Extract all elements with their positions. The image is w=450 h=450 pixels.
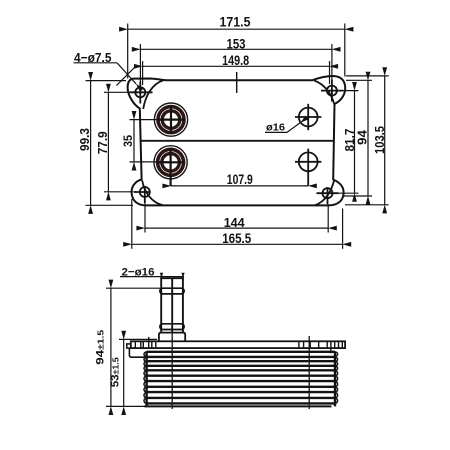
dimension 81.7 xyxy=(332,91,359,194)
ear inner arc bottom-right xyxy=(315,180,334,205)
svg-text:77.9: 77.9 xyxy=(95,131,110,154)
svg-text:107.9: 107.9 xyxy=(227,172,253,187)
dimension 107.9 xyxy=(171,172,308,187)
body horizontal centre line xyxy=(141,140,334,142)
flange left stub xyxy=(127,344,131,348)
svg-text:94±1.5: 94±1.5 xyxy=(95,329,107,364)
dimension 165.5 xyxy=(132,199,343,249)
svg-text:94: 94 xyxy=(354,129,369,145)
hole ø16 upper right xyxy=(295,104,321,130)
svg-text:149.8: 149.8 xyxy=(222,53,249,68)
dimension 149.8 xyxy=(143,53,330,85)
stack left edge bumps xyxy=(144,352,147,404)
svg-text:99.3: 99.3 xyxy=(77,128,92,151)
bolt hole bottom-left xyxy=(134,186,151,203)
hole ø16 lower right xyxy=(295,149,321,186)
second port centre line xyxy=(308,336,310,409)
label 2-ø16 with dimension xyxy=(120,266,185,278)
svg-text:ø16: ø16 xyxy=(266,122,286,133)
stack right edge bumps xyxy=(335,352,338,404)
ear inner arc top-left xyxy=(143,80,163,109)
oil port lower (with seal rings) xyxy=(154,146,187,186)
dimension 94±1.5 xyxy=(95,288,161,406)
flange left under-tab xyxy=(129,348,146,357)
svg-text:144: 144 xyxy=(224,215,246,230)
dimension 77.9 xyxy=(95,92,133,192)
svg-text:171.5: 171.5 xyxy=(220,14,251,29)
dimension 144 xyxy=(145,203,328,233)
svg-text:165.5: 165.5 xyxy=(222,231,251,246)
bolt hole top-left xyxy=(129,82,152,104)
bolt hole bottom-right xyxy=(317,187,339,204)
flange castellation ticks left xyxy=(135,337,156,348)
oil cooler flange body outline (top view) xyxy=(128,76,346,205)
pipe centre line continuation xyxy=(171,333,173,409)
flange castellation ticks right xyxy=(299,341,342,353)
body top centre mark xyxy=(236,72,238,93)
label 4-ø7.5 with leader xyxy=(74,50,137,86)
oil port upper (with seal rings) xyxy=(154,103,187,136)
svg-text:103.5: 103.5 xyxy=(372,126,387,154)
pipe base collar xyxy=(159,333,185,342)
dimension 35 xyxy=(121,120,171,162)
dimension 99.3 xyxy=(77,81,133,206)
label ø16 with leader xyxy=(265,122,300,133)
svg-text:153: 153 xyxy=(227,37,246,52)
pipe lower bead xyxy=(160,324,184,330)
stack bottom plate xyxy=(144,405,331,407)
top flange plate xyxy=(131,341,345,348)
ear inner arc bottom-left xyxy=(142,181,163,206)
side view: inlet pipe xyxy=(160,278,184,332)
dimension 171.5 xyxy=(128,14,345,78)
pipe upper bead xyxy=(160,288,184,294)
svg-text:53±1.5: 53±1.5 xyxy=(109,357,121,387)
dimension 153 xyxy=(140,37,332,87)
dimension 94 xyxy=(343,80,372,196)
ear inner arc top-right xyxy=(314,80,334,103)
svg-text:35: 35 xyxy=(121,135,135,147)
dimension 53±1.5 xyxy=(109,339,157,406)
cooler plate stack xyxy=(147,352,335,407)
dimension 103.5 xyxy=(345,76,389,205)
bolt hole top-right xyxy=(321,80,343,102)
